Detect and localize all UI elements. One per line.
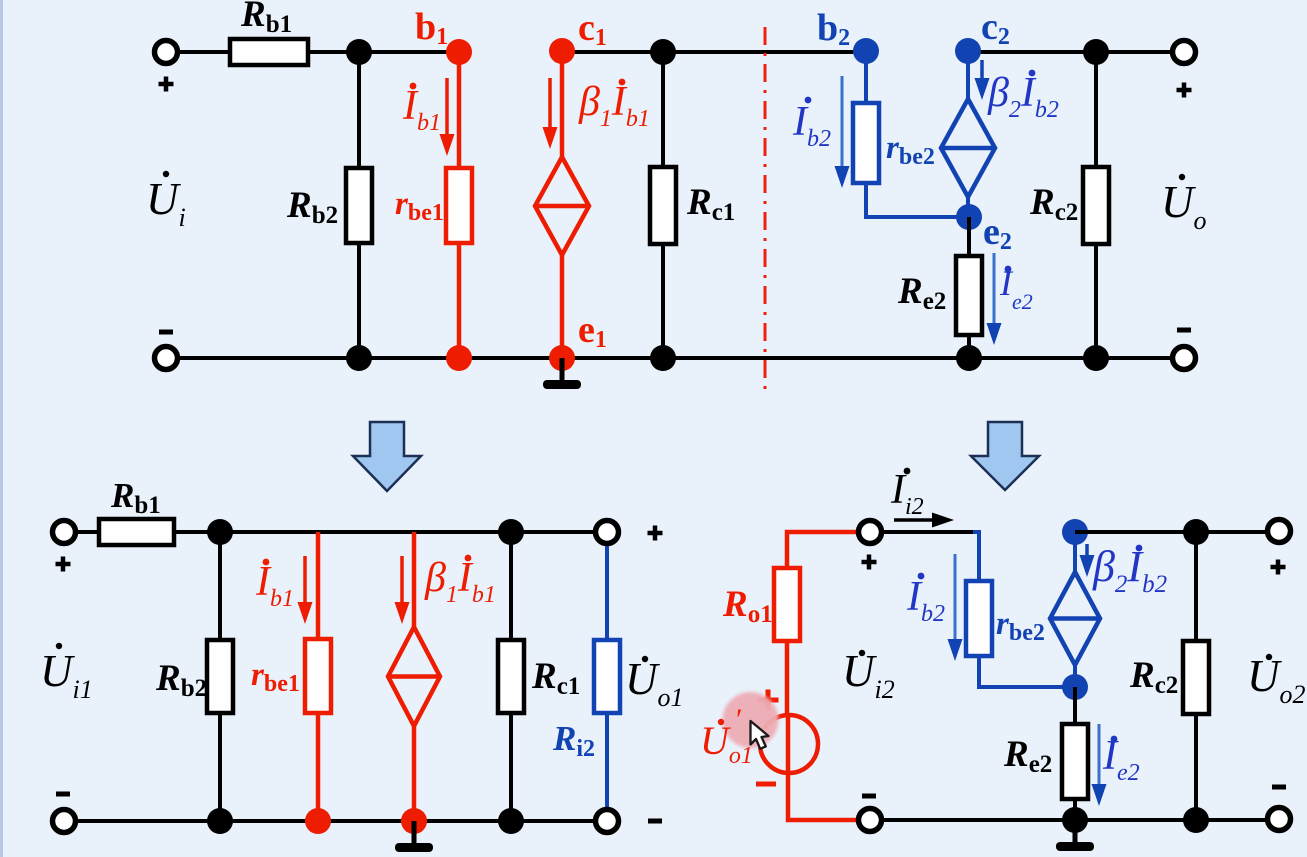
current arrow I_i2 [894,513,954,528]
resistor R_e2 (top) [956,256,982,335]
minus sign at output (top) [1177,328,1191,333]
node e2 [956,204,982,230]
label beta2 I_b2 (top) [987,70,1059,123]
label U_o [1161,174,1207,235]
node r_be1 bottom (top) [446,345,472,371]
terminal input - (bottom-left) [53,810,76,833]
label I_b1 (bottom-left) [255,559,294,612]
label U_i1 [40,643,93,704]
label I_b2 (top) [792,97,831,152]
wire input to R_o1 (bottom-right) [787,532,858,568]
node r_be1 bottom (bottom-left) [305,808,331,834]
minus sign at input (top) [159,330,173,335]
mouse cursor [751,721,769,749]
current arrow beta2 I_b2 (bottom-right) [1080,544,1095,577]
current arrow I_b1 (bottom-left) [298,556,313,624]
terminal output - (top) [1173,347,1196,370]
node R_c1 top (bottom-left) [498,519,524,545]
minus sign output (bottom-left) [648,819,662,824]
node R_c2 top (top) [1083,39,1109,65]
wire r_be2 top lead (bottom-right) [973,532,979,581]
terminal input bottom (bottom-right) [859,809,882,832]
node junction R_b1/R_b2 (top) [346,39,372,65]
wire R_o1 to source [785,641,790,716]
wire R_c1 column (bottom-left) [509,532,513,821]
plus sign output (bottom-right) [1271,560,1286,575]
wire R_b2 column (top) [357,52,361,358]
wire r_be1 column (bottom-left) [316,532,321,821]
node c1 [549,38,575,64]
voltage source U'_o1 circle [760,715,818,773]
wire R_i2 column [605,532,609,821]
node R_c2 bottom (bottom-right) [1183,807,1209,833]
plus sign input (bottom-right) [862,555,877,570]
wire R_c1 column (top) [661,52,665,358]
resistor R_b2 (top) [346,168,372,243]
wire bottom rail (top circuit) [177,356,1173,360]
wire r_be2 to e2 (top) [866,183,969,217]
wire r_be1 column (top) [457,52,462,358]
terminal input top (bottom-right) [859,521,882,544]
label I_i2 [890,467,924,520]
svg-text:′: ′ [736,703,743,736]
current arrow beta1 I_b1 (bottom-left) [395,556,410,624]
terminal output + (bottom-left) [596,521,619,544]
wire R_c2 column (bottom-right) [1194,532,1198,820]
plus sign at source [758,690,779,711]
wire diamond 2 to e2 (top) [966,197,970,217]
wire top rail (bottom-left) [75,530,596,534]
resistor R_c2 (top) [1083,167,1109,244]
wire bottom rail (bottom-right) [882,818,1268,822]
wire R_e2 column (top) [967,217,971,358]
wire diamond 2 top lead (top) [966,51,970,99]
node R_e2 bottom (top) [956,345,982,371]
current arrow I_e2 (bottom-right) [1092,724,1107,806]
resistor R_c1 (top) [650,167,676,244]
node R_c1 bottom (top) [650,345,676,371]
node b2 [853,38,879,64]
label I_e2 (top) [999,263,1033,314]
node b1 [446,39,472,65]
resistor R_b1 (top) [230,39,308,65]
resistor R_o1 [774,568,800,641]
plus sign input (bottom-left) [56,557,71,572]
label I_b2 (bottom-right) [906,573,945,627]
resistor r_be2 (top) [853,103,879,183]
wire controlled source column 1 (top) [560,51,565,358]
terminal input + (top) [155,41,178,64]
wire diamond top lead (bottom-right) [1073,532,1077,572]
node e1 (bottom-left) [401,808,427,834]
wire diamond to e2 (bottom-right) [1073,665,1077,687]
minus sign input (bottom-right) [862,794,876,799]
node diamond top (bottom-right) [1062,519,1088,545]
node R_b2 bottom (bottom-left) [207,808,233,834]
wire top rail c2 to output [968,50,1173,54]
wire input to r_be2 (bottom-right) [882,530,975,534]
current arrow I_b2 (top) [835,76,850,188]
wire source to bottom terminal [788,773,858,820]
node e1 [549,345,575,371]
label U_o2 [1247,651,1306,709]
wire R_c2 column (top) [1094,52,1098,358]
resistor R_b2 (bottom-left) [207,640,233,713]
current arrow beta1 I_b1 (top) [543,78,558,149]
node R_b2 bottom (top) [346,345,372,371]
terminal output + (top) [1173,41,1196,64]
big blue arrow left [353,422,421,491]
minus sign at source [756,782,776,787]
current arrow I_b2 (bottom-right) [948,554,963,661]
resistor r_be1 (top) [446,168,472,243]
resistor r_be2 (bottom-right) [966,581,992,656]
node R_c1 bottom (bottom-left) [498,808,524,834]
wire top rail c1 to b2 [562,50,866,54]
resistor R_b1 (bottom-left) [99,519,174,545]
terminal output - (bottom-left) [596,810,619,833]
terminal input + (bottom-left) [53,521,76,544]
wire r_be2 top lead (top) [864,51,868,103]
plus sign at output (top) [1177,83,1192,98]
controlled source diamond beta2*I_b2 (bottom-right) [1050,572,1100,665]
label beta1 I_b1 (top) [578,79,650,132]
wire R_e2 column (bottom-right) [1073,687,1077,820]
controlled source diamond beta1*I_b1 (top) [535,157,589,255]
plus sign output (bottom-left) [648,526,663,541]
wire bottom rail (bottom-left) [75,819,596,823]
label U_i2 [842,646,895,704]
label U'_o1 [700,703,753,769]
resistor R_i2 [594,640,620,713]
label I_e2 (bottom-right) [1102,733,1140,786]
wire controlled source column (bottom-left) [412,532,417,821]
minus sign input (bottom-left) [56,792,70,797]
current arrow beta2 I_b2 (top) [975,60,990,100]
controlled source diamond beta1*I_b1 (bottom-left) [388,627,440,726]
wire R_b2 column (bottom-left) [218,532,222,821]
plus sign at input (top) [159,77,174,92]
label beta1 I_b1 (bottom-left) [424,555,496,608]
label beta2 I_b2 (bottom-right) [1092,542,1167,598]
current arrow I_e2 (top) [987,253,1002,345]
node R_c2 top (bottom-right) [1183,519,1209,545]
stage divider dash-dot line [764,27,767,396]
node c2 [955,38,981,64]
ground at R_e2 (bottom-right) [1056,820,1094,851]
wire top rail (bottom-right) [1075,530,1268,534]
controlled source diamond beta2*I_b2 (top) [941,99,995,197]
wire through source [786,716,791,773]
minus sign output (bottom-right) [1272,785,1286,790]
label U_o1 [625,654,684,712]
label U_i [146,171,186,232]
big blue arrow right [971,422,1039,490]
resistor R_c1 (bottom-left) [498,640,524,713]
highlight circle (cursor halo) [723,692,779,748]
terminal output + (bottom-right) [1268,520,1291,543]
wire r_be2 to e2 (bottom-right) [979,656,1075,687]
left edge strip [0,0,3,857]
label I_b1 (top) [402,83,441,136]
resistor r_be1 (bottom-left) [305,639,331,713]
ground at e1 [543,358,581,389]
node R_c1 top (top) [650,39,676,65]
ground at e1 (bottom-left) [395,821,433,852]
node junction (bottom-left) [207,519,233,545]
wire top rail input to b1 [177,50,459,54]
current arrow I_b1 (top) [440,78,455,156]
node R_c2 bottom (top) [1083,345,1109,371]
resistor R_c2 (bottom-right) [1183,641,1209,714]
node R_e2 bottom (bottom-right) [1062,807,1088,833]
node e2 (bottom-right) [1062,674,1088,700]
terminal output - (bottom-right) [1268,808,1291,831]
resistor R_e2 (bottom-right) [1062,724,1088,799]
terminal input - (top) [155,347,178,370]
